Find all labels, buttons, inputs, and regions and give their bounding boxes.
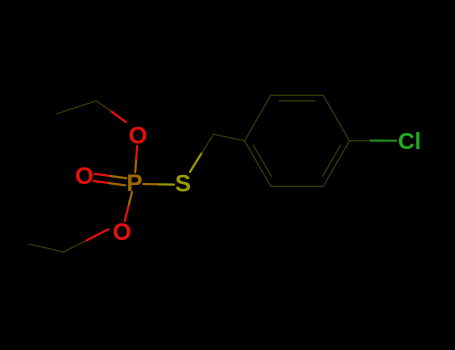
ring inner double line lower-right: [323, 145, 341, 176]
ring edge L-TL: [245, 95, 271, 141]
ring edge BR-BL: [271, 185, 323, 187]
bond P-S, P half: [143, 183, 158, 186]
bond P-S, S half: [159, 183, 174, 186]
bond O(bottom)-CH2, O half: [86, 229, 108, 241]
ring edge TL-TR: [271, 94, 323, 96]
double bond P=O upper line, O half: [95, 174, 111, 176]
bond CH2-ring ipso: [214, 134, 245, 141]
ring inner double line top: [279, 100, 315, 102]
svg-text:P: P: [126, 170, 142, 197]
svg-text:S: S: [175, 171, 191, 198]
svg-text:O: O: [75, 163, 94, 190]
bond P-O(top), O half: [136, 146, 137, 159]
bond O(top)-CH2, C half: [96, 101, 111, 111]
bond CH2-CH3 top ethyl: [57, 101, 96, 114]
bond P-O(top), P half: [135, 159, 136, 172]
double bond P=O lower line, P half: [109, 183, 125, 185]
bond O(bottom)-CH2, C half: [64, 241, 86, 252]
bond S-CH2 benzyl, S half: [190, 153, 202, 172]
bond S-CH2 benzyl, C half: [202, 134, 214, 153]
svg-text:O: O: [129, 123, 148, 150]
ring edge TR-R: [323, 95, 349, 141]
double bond P=O upper line, P half: [110, 176, 126, 178]
svg-text:Cl: Cl: [398, 128, 421, 154]
bond P-O(bottom), P half: [128, 192, 132, 207]
double bond P=O lower line, O half: [94, 181, 110, 183]
ring inner double line lower-left: [254, 145, 272, 176]
bond ring-Cl, C half: [350, 140, 371, 142]
bond CH2-CH3 bottom ethyl: [29, 244, 64, 252]
ring edge BL-L: [245, 141, 271, 187]
svg-text:O: O: [113, 219, 132, 246]
ring edge R-BR: [323, 141, 349, 187]
bond O(top)-CH2, O half: [111, 111, 126, 122]
bond P-O(bottom), O half: [125, 207, 129, 221]
bond ring-Cl, Cl half: [371, 140, 396, 142]
